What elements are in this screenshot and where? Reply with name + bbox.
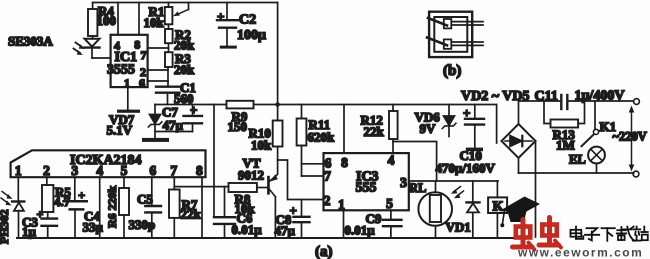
capacitor C11 xyxy=(535,89,625,110)
svg-text:22k: 22k xyxy=(181,207,202,222)
svg-text:IC2KA2184: IC2KA2184 xyxy=(70,153,142,168)
wire IC2 pin4 down xyxy=(99,177,101,238)
svg-text:10k: 10k xyxy=(144,15,165,30)
svg-text:C5: C5 xyxy=(137,192,153,207)
eeworm logo red character chong 2 xyxy=(539,218,561,248)
svg-text:C2: C2 xyxy=(239,13,256,28)
ground bar under VD7/C7 xyxy=(142,138,169,142)
resistor R1 potentiometer xyxy=(144,3,189,31)
svg-text:20k: 20k xyxy=(174,62,195,77)
svg-text:100: 100 xyxy=(97,13,117,28)
svg-text:1μ: 1μ xyxy=(22,224,37,239)
wire long vertical right xyxy=(277,3,279,105)
wire R3 to C1 xyxy=(167,67,169,87)
resistor R13 1M xyxy=(544,101,585,153)
svg-text:8: 8 xyxy=(196,163,203,178)
wire emitter to pin2 path xyxy=(278,160,324,200)
svg-text:9012: 9012 xyxy=(238,168,264,183)
svg-text:VD1: VD1 xyxy=(446,220,471,235)
svg-text:330p: 330p xyxy=(129,217,156,232)
svg-text:8: 8 xyxy=(341,155,348,170)
svg-text:4: 4 xyxy=(388,153,395,168)
char zai xyxy=(617,229,625,231)
svg-text:+: + xyxy=(78,188,85,202)
svg-text:620k: 620k xyxy=(308,130,336,145)
svg-text:R6 220k: R6 220k xyxy=(105,185,119,228)
resistor R4 xyxy=(88,3,116,37)
zener VD7 5.1V xyxy=(107,105,162,138)
svg-text:3555: 3555 xyxy=(107,63,135,78)
lamp EL xyxy=(569,147,605,173)
wire R7 top to R8 xyxy=(174,186,228,188)
wire rail corner to bridge xyxy=(496,105,498,144)
relay K xyxy=(488,181,507,238)
svg-text:2: 2 xyxy=(324,193,331,208)
svg-text:~220V: ~220V xyxy=(613,130,647,144)
wire 5.1V rail left segment xyxy=(155,104,227,106)
wire IC3 pin6 stub xyxy=(302,163,324,165)
resistor R6 220k xyxy=(105,177,129,238)
svg-text:www.eeworm.com: www.eeworm.com xyxy=(517,246,643,259)
resistor R7 xyxy=(169,177,202,238)
wire bridge bottom xyxy=(518,158,520,173)
connector figure (b) xyxy=(427,12,483,79)
svg-text:+: + xyxy=(217,9,224,24)
capacitor C2 xyxy=(217,3,266,46)
wire IC3 pin7 stub xyxy=(302,175,324,177)
capacitor C3 xyxy=(22,207,57,239)
svg-text:10k: 10k xyxy=(251,138,272,153)
bridge rectifier VD2~VD5 xyxy=(461,89,536,158)
resistor R11 xyxy=(297,105,335,177)
svg-text:1M: 1M xyxy=(556,138,575,153)
svg-text:+: + xyxy=(190,103,197,118)
svg-text:47μ: 47μ xyxy=(163,118,184,133)
resistor R8 xyxy=(229,183,257,216)
svg-text:0.01μ: 0.01μ xyxy=(345,223,376,238)
wire bridge top to AC rail xyxy=(518,101,520,124)
op-amp U1 IC1 3555 timer box xyxy=(107,3,148,90)
wire IC1 pin1 to ground xyxy=(127,87,129,110)
wire bottom ground rail xyxy=(17,237,521,239)
zener VD6 9V xyxy=(415,105,456,137)
photodiode PH302 xyxy=(0,177,24,244)
svg-text:470μ/160V: 470μ/160V xyxy=(436,161,496,176)
svg-text:+: + xyxy=(463,106,470,121)
svg-text:SE303A: SE303A xyxy=(8,34,53,49)
ground bar under IC1 xyxy=(117,110,140,113)
wire 5.1V drop to C6 xyxy=(213,105,215,218)
svg-text:150: 150 xyxy=(228,119,248,134)
svg-text:100μ: 100μ xyxy=(237,28,266,43)
switch K1 xyxy=(582,101,617,146)
svg-text:6: 6 xyxy=(139,76,145,90)
char zhan xyxy=(636,227,638,229)
ground bar under C2 xyxy=(220,46,237,49)
svg-text:7: 7 xyxy=(324,169,331,184)
svg-text:3: 3 xyxy=(71,163,78,178)
terminal top xyxy=(634,99,640,105)
resistor R9 xyxy=(227,101,254,134)
photodiode SE303A xyxy=(8,34,111,59)
capacitor C4 xyxy=(64,177,104,238)
mains arrow ~220V xyxy=(613,106,647,172)
svg-text:1: 1 xyxy=(15,163,22,178)
capacitor C8 xyxy=(275,200,310,239)
svg-text:7: 7 xyxy=(141,48,147,62)
svg-text:(a): (a) xyxy=(315,244,333,259)
eeworm logo red character chong 1 xyxy=(513,220,535,250)
svg-text:5.1V: 5.1V xyxy=(107,123,133,138)
capacitor C9 xyxy=(345,210,402,238)
wire 9V rail right segment xyxy=(254,104,497,106)
capacitor C10 xyxy=(436,105,496,176)
capacitor C1 xyxy=(156,80,196,106)
capacitor C6 xyxy=(214,187,262,238)
svg-text:EL: EL xyxy=(569,153,586,167)
resistor R3 xyxy=(165,43,195,77)
svg-text:PH302: PH302 xyxy=(0,209,11,244)
char dian xyxy=(571,230,582,237)
svg-text:1μ/400V: 1μ/400V xyxy=(575,89,625,104)
svg-text:4: 4 xyxy=(96,163,103,178)
capacitor C7 xyxy=(155,103,202,133)
wire IC2 pin8 down xyxy=(201,177,203,238)
resistor R2 xyxy=(165,24,195,52)
capacitor C5 xyxy=(129,177,162,238)
resistor R5 xyxy=(42,177,71,218)
svg-text:2: 2 xyxy=(43,163,50,178)
terminal bottom xyxy=(633,171,639,177)
wire IC3 pin8 feed xyxy=(343,105,345,154)
resistor R10 xyxy=(249,105,283,175)
svg-text:(b): (b) xyxy=(443,63,461,79)
svg-text:7: 7 xyxy=(170,163,177,178)
svg-text:47μ: 47μ xyxy=(275,223,296,238)
svg-text:5: 5 xyxy=(386,196,393,211)
char xia xyxy=(602,227,615,229)
resistor R12 xyxy=(361,105,398,154)
wire pin2 stub xyxy=(148,69,168,71)
wire IC3 pin1 down xyxy=(343,210,345,238)
photoresistor RL xyxy=(409,181,464,238)
svg-text:3: 3 xyxy=(400,175,407,190)
svg-text:C11: C11 xyxy=(535,89,558,104)
transistor Q1 VT 9012 xyxy=(238,156,278,239)
node junction dot xyxy=(275,102,280,107)
diode VD1 xyxy=(446,181,480,238)
wire bridge right down xyxy=(535,141,537,237)
svg-text:6: 6 xyxy=(150,163,157,178)
wire AC top rail xyxy=(519,100,634,102)
wire R12 branch to pin3 node xyxy=(393,142,437,182)
svg-text:555: 555 xyxy=(356,181,377,196)
eeworm logo graduation cap xyxy=(500,197,540,228)
wire pin6 stub xyxy=(148,80,168,82)
IC2 KA2184 box xyxy=(11,150,206,178)
wire pin7 stub xyxy=(148,47,169,49)
wire AC bottom rail xyxy=(519,172,634,174)
ground bar under C10 xyxy=(466,148,483,152)
svg-text:0.01μ: 0.01μ xyxy=(232,222,263,237)
IC3 555 box xyxy=(324,153,409,213)
wire top supply rail xyxy=(93,2,278,4)
svg-text:9V: 9V xyxy=(420,121,437,136)
char zi xyxy=(587,228,598,233)
svg-text:22k: 22k xyxy=(364,124,385,139)
wire IC3 pin3 line xyxy=(409,180,498,182)
eeworm logo text dian zi xia zai zhan xyxy=(571,227,648,241)
svg-text:5: 5 xyxy=(121,163,128,178)
svg-text:RL: RL xyxy=(409,181,426,195)
